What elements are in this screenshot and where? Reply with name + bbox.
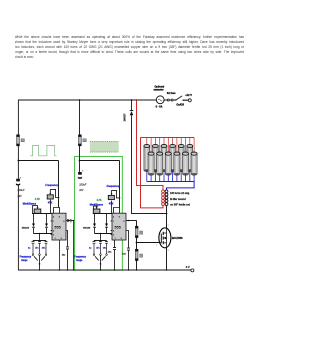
wire: L2 to drain <box>166 206 168 229</box>
wire: U2 pin3 output <box>126 220 137 222</box>
wire: R2 to node B <box>79 146 81 172</box>
svg-text:47n: 47n <box>35 246 39 249</box>
wire: U2 pins 4,8 to Vcc <box>114 208 120 214</box>
wire: stage2 right drop <box>119 161 121 208</box>
resistor R1 100 ohm (stage 1 supply) <box>16 135 24 146</box>
capacitor C6 100uF electrolytic <box>78 169 87 193</box>
capacitor C10 10n on U2 pin1 <box>108 240 116 270</box>
wire: +12V top rail <box>18 99 188 101</box>
svg-text:range: range <box>21 260 28 262</box>
green box around stage 2 <box>75 156 123 270</box>
svg-text:1: 1 <box>156 244 157 246</box>
svg-text:100uF: 100uF <box>79 183 87 186</box>
node: output junction <box>128 220 130 222</box>
wire: source to 0V rail <box>166 248 168 270</box>
wire: stage2 diode bus <box>95 233 113 235</box>
waveform: gating square wave (green) <box>30 145 56 155</box>
wire: to timing caps 2 <box>100 234 102 241</box>
wire: stage1 pin bus <box>32 213 52 215</box>
svg-text:1N4148: 1N4148 <box>22 227 30 230</box>
wire: stage2 pin bus <box>93 213 112 215</box>
wire: U1 pins 4,8 to Vcc <box>54 208 60 214</box>
wire: stage2 vertical from rail <box>79 100 81 135</box>
svg-text:bi-filar wound: bi-filar wound <box>170 198 186 201</box>
label: inductor winding note <box>170 192 191 206</box>
svg-text:+: + <box>82 169 84 173</box>
wire: red anode top bus <box>141 137 195 139</box>
electrolyser cell: back row tubes <box>144 144 193 172</box>
potentiometer VR3 frequency 47K <box>107 185 120 214</box>
svg-text:ammeter: ammeter <box>154 89 164 92</box>
diode D4 1N4148 <box>83 214 96 234</box>
svg-text:16V: 16V <box>79 189 84 192</box>
node: rail junctions <box>39 269 168 271</box>
wire: red +12V feed to inductor L1 <box>137 100 164 190</box>
ammeter M1 optional 0-5A <box>154 86 165 109</box>
wire: gating line down <box>73 221 75 271</box>
svg-text:0 - 5A: 0 - 5A <box>156 106 163 109</box>
node: red supply on rail <box>136 99 138 101</box>
node: timing junction 2 <box>100 233 102 235</box>
wire: to timing caps <box>39 234 41 241</box>
node: top rail to D6 <box>131 99 133 101</box>
node A junction <box>18 160 20 162</box>
wire: R4 to 0V <box>136 261 138 270</box>
svg-text:On/Off: On/Off <box>176 104 184 107</box>
svg-text:3: 3 <box>168 250 169 252</box>
fuse F1 6A <box>167 92 176 101</box>
svg-text:10n: 10n <box>108 251 112 253</box>
diode D5 1N4148 <box>105 214 108 234</box>
diode D3 1N4148 on U1 output pin3 <box>66 219 74 223</box>
svg-text:1u: 1u <box>28 247 31 249</box>
svg-text:6A fuse: 6A fuse <box>167 92 176 95</box>
transistor Q1 BUZ350 MOSFET <box>156 225 183 252</box>
svg-text:47n: 47n <box>96 246 100 249</box>
capacitor C11 10n on U2 pin5 <box>122 231 130 271</box>
svg-text:+: + <box>20 175 22 179</box>
diode D1 1N4148 <box>22 214 35 234</box>
node B junction <box>79 160 81 162</box>
svg-text:range: range <box>76 260 83 262</box>
electrolyser cell: front row tubes <box>148 152 197 176</box>
svg-text:4.7K: 4.7K <box>35 198 40 201</box>
wire: output down to R3 <box>136 221 138 227</box>
potentiometer VR1 frequency 47K <box>45 184 58 214</box>
svg-text:2: 2 <box>168 225 169 227</box>
switch SW3 frequency range selector 2 <box>74 254 107 270</box>
inductor L1 bifilar red winding <box>162 190 165 206</box>
wire: gate horizontal <box>137 242 160 244</box>
switch SW2 frequency range selector <box>20 254 47 270</box>
wire: 0V bottom rail <box>18 269 191 271</box>
capacitor C5 10n on U1 pin5 <box>62 231 69 271</box>
wire: blue cathode drops back row <box>147 171 190 181</box>
svg-text:Frequency: Frequency <box>20 256 32 258</box>
switch SW1 On/Off <box>175 96 184 107</box>
svg-text:4.7K: 4.7K <box>97 199 102 202</box>
op-amp U1 555 timer <box>51 213 66 240</box>
wire: C1 to 0V rail <box>17 185 19 270</box>
terminal 0V <box>186 265 194 272</box>
wire: stage1 Vcc horizontal <box>18 160 59 162</box>
wire: red drops to front tubes <box>151 138 194 153</box>
capacitor bank C2 C3 C4 (frequency range) <box>28 241 48 254</box>
wire: blue cathode bus <box>147 182 194 191</box>
resistor R3 220 ohm gate drive <box>135 226 142 237</box>
waveform: high frequency output (green block) <box>90 141 119 152</box>
node: gate junction <box>136 242 138 244</box>
wire: caps top bus <box>33 240 46 242</box>
wire: R1 to node A <box>17 146 19 179</box>
svg-text:0 V: 0 V <box>186 265 190 269</box>
node: stage2 riser on rail <box>79 99 81 101</box>
wire: stage1 diode bus <box>34 233 53 235</box>
terminal +12V <box>185 94 192 102</box>
svg-text:BUZ350: BUZ350 <box>172 236 183 240</box>
wire: blue cathode drops front row <box>151 175 194 182</box>
op-amp U2 555 timer <box>111 213 126 240</box>
svg-text:1N4007: 1N4007 <box>123 113 126 122</box>
diode D2 1N4148 <box>45 214 48 234</box>
svg-text:555: 555 <box>114 226 120 230</box>
svg-text:1N4148: 1N4148 <box>83 227 91 230</box>
wire: caps top bus 2 <box>94 240 107 242</box>
node: timing junction <box>39 233 41 235</box>
wire: red drops to back tubes <box>147 138 190 145</box>
svg-text:10n: 10n <box>122 254 126 256</box>
wire: R3 to gate node <box>136 238 138 250</box>
wire: U1 pin1 to 0V <box>59 240 61 270</box>
svg-text:on 3/8" ferrite rod: on 3/8" ferrite rod <box>170 203 191 206</box>
node: gating junction <box>73 220 75 222</box>
svg-text:+12 V: +12 V <box>185 94 192 97</box>
svg-text:100 turns 22 swg: 100 turns 22 swg <box>170 192 190 195</box>
wire: L1 to cell anode bus (red) <box>141 138 164 208</box>
node: drain junction <box>166 213 168 215</box>
wire: left vertical from rail <box>17 100 19 135</box>
svg-text:Frequency: Frequency <box>45 184 58 187</box>
capacitor bank C7 C8 C9 (frequency range 2) <box>89 241 108 254</box>
wire: D6 anode down to drain <box>132 115 167 213</box>
potentiometer VR4 mark/space 4.7K <box>90 199 104 214</box>
wire: stage2 Vcc horizontal <box>80 160 120 162</box>
diode D6 1N4007 flyback <box>123 100 133 122</box>
svg-text:555: 555 <box>54 226 60 230</box>
wire: stage1 right drop <box>58 161 60 208</box>
capacitor C1 100uF electrolytic <box>16 175 25 198</box>
svg-text:1u: 1u <box>89 247 92 249</box>
potentiometer VR2 mark/space 4.7K <box>23 198 41 213</box>
resistor R2 100 ohm (stage 2 supply) <box>78 135 86 146</box>
svg-text:10n: 10n <box>62 254 66 256</box>
resistor R4 100 ohm gate pulldown <box>135 249 142 260</box>
node: VR1 wiper junction <box>58 197 60 199</box>
svg-text:Frequency: Frequency <box>107 185 120 188</box>
node: VR3 wiper junction <box>119 197 121 199</box>
svg-text:10n: 10n <box>42 247 46 249</box>
svg-text:Frequency: Frequency <box>74 256 86 258</box>
inductor L2 bifilar return winding <box>165 190 168 206</box>
